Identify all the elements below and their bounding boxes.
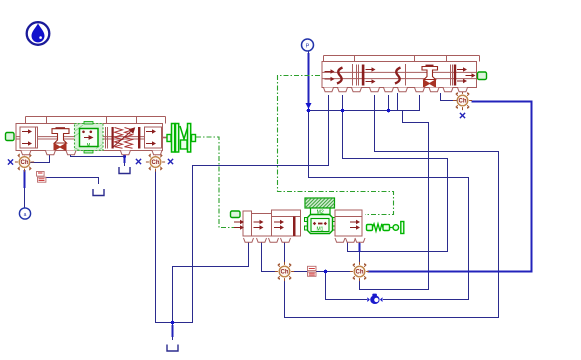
V1 pilot green box [75,122,104,154]
tank T3 [167,345,178,352]
V2 bump 10 [458,88,468,92]
V3 section B [272,217,301,237]
V3 dark bar B [293,217,296,237]
gauge Ch1 [15,152,34,171]
V1 chamber 1 [20,127,37,148]
wire Ch4 top stub [359,241,361,262]
arrowhead pump [306,103,312,109]
X mark Ch2 left [136,159,141,164]
pilot line coupling to middle valve [196,137,243,228]
V1 bump 1 [21,151,31,155]
gauge Ch3 [275,262,294,281]
V2 arrow b3 [366,67,376,71]
thick Ch1 down segment [23,170,25,188]
check ball B1 [367,294,382,304]
V2 arrow b2 [325,77,335,81]
tank T2 [119,167,130,174]
V2 bump 3 [352,88,362,92]
wire port stub 388 [388,95,390,111]
V2 arrow b5 [457,67,467,71]
V2 arrow b4 [366,79,376,83]
X mark Ch1 left [8,159,13,164]
valve V3 middle assembly [231,198,404,242]
V1 right chamber [145,127,162,148]
V3 bump 4 [281,238,291,242]
pump P1 circle [302,39,314,51]
fluid drop icon [27,22,50,45]
V2 bump 8 [429,88,439,92]
V1 top rail [26,117,166,124]
V2 mid rails [322,72,477,78]
V3 M2 box [305,198,335,215]
V3 chamber A [252,214,272,237]
wire Ch3 top stub [284,241,286,262]
V2 bump 7 [415,88,425,92]
wire Ch1 down to gauge G1 [24,169,26,208]
V1 stem to coupling [163,137,168,139]
X mark Ch2 right [168,159,173,164]
V1 dark bar top [56,127,66,129]
V2 S curve 2 [395,68,401,84]
V1 spring 1 [115,128,123,149]
V2 divider 1 [352,64,354,86]
V3 arrows section B [274,220,284,224]
V1 arrow a3 [146,129,156,133]
wire branch to tank T3 [172,323,174,341]
V1 arrow a2 [22,141,32,145]
V1 bump 5 [152,151,162,155]
thick tank T2 segment [123,154,125,163]
V2 arrow b1 [325,69,335,73]
junction dot C [387,109,391,113]
wire junction down to ball valve [326,272,368,300]
V2 stem arrow to port [466,73,476,77]
V2 arrow b6 [457,79,467,83]
V2 bump 4 [370,88,380,92]
svg-text:P: P [306,44,310,50]
V1 dark bar mid [112,127,114,149]
wire rail y110 [309,95,420,111]
V1 arrow a1 [22,129,32,133]
svg-text:a: a [24,212,27,218]
V2 green port right [478,72,487,80]
V1 spring arrow [113,128,135,148]
wire RC1 to tank T1 [46,178,99,185]
wire port 397 stub [397,93,399,111]
thick tank T3 segment [171,325,173,337]
wire pump branch to ball valve [309,111,469,300]
V1 left port green [6,133,15,141]
V1 dark bar right [138,127,140,149]
gauge G1 circle [19,208,30,219]
V2 bar right [454,65,456,86]
gauge Ch4 [350,262,369,281]
wire RC2 to Ch4 left [316,271,351,273]
valve V2 top right assembly [322,56,487,92]
valve V1 left assembly [6,117,166,157]
V2 bump 6 [398,88,408,92]
V2 bump 2 [338,88,348,92]
V2 bump 9 [443,88,453,92]
V2 bump 5 [384,88,394,92]
junction dot D [324,270,328,274]
V3 left port green [231,211,241,218]
V3 entry arrows [234,220,244,224]
V3 M1 box [305,215,336,234]
V1 bump 2 [45,151,55,155]
V3 top cap C [335,210,362,217]
V1 bar1 [36,127,38,148]
junction dot F [123,155,126,158]
V3 top cap B [272,210,301,217]
V3 section C [335,217,362,237]
V3 bump 6 [346,238,356,242]
V3 bump 5 [335,238,345,242]
component RC2 [308,266,317,276]
V1 bowtie [54,143,67,151]
wire 342 to 448 loop to middle valve [343,95,448,252]
V1 T poppet [52,129,69,143]
wire Ch2 down long loop to V2 port [156,95,329,323]
V2 divider 2 [405,64,407,86]
V1 spring 2 [125,128,133,149]
wire valve port to tank T2 [124,152,126,166]
gauge Ch2 [146,152,165,171]
gauge Ch5 [453,91,472,110]
V3 bump 2 [257,238,267,242]
V2 top rail [324,56,480,62]
svg-text:M: M [87,142,91,147]
wire middle valve drop to tank T3 branch [173,241,249,323]
wire Ch1 to valve port [31,151,50,163]
wire V2 port374 long loop to Ch3 bottom [285,95,499,318]
V3 bump 7 [355,238,365,242]
V2 T poppet [426,65,434,67]
V1 bump 3 [66,151,76,155]
V3 bump 1 [244,238,254,242]
V3 bump 3 [269,238,279,242]
V2 body [322,62,477,88]
wire pump P1 down [308,51,310,111]
wire Ch3 right to RC2 to Ch4 [292,271,308,273]
wire port to Ch5 left [441,93,457,101]
V3 arrows section C [350,220,360,224]
V3 spring assembly right [367,222,404,234]
junction dot E [171,321,175,325]
coupling green [167,124,196,153]
thick Ch4 top segment [358,243,360,252]
wire staircase to Ch4 bottom [360,111,429,290]
wire middle valve drop to Ch3 left [262,241,277,272]
svg-text:M1: M1 [317,227,324,233]
hose Ch4 to Ch5 thick loop [368,102,532,272]
V1 arrow a4 [146,141,156,145]
V1 bump 4 [120,151,130,155]
V1 mid rails [16,137,163,139]
V3 left cap [243,211,252,236]
tank T1 [93,189,104,196]
X mark Ch5 bottom [460,113,465,118]
V2 bars [357,65,359,86]
V1 port link wire [71,155,125,157]
V2 S curve 1 [337,68,343,84]
junction dot A [307,109,311,113]
pilot line V2 to middle valve right [278,76,394,215]
V2 thin bars right [451,65,453,86]
V2 bump 1 [324,88,334,92]
V3 arrows chamber A [254,220,264,224]
V1 bar2 [106,127,108,149]
V1 body [16,124,163,151]
V2 bowtie [423,80,436,88]
component RC1 [37,172,46,183]
junction dot B [341,109,345,113]
thick pump segment [307,53,309,104]
